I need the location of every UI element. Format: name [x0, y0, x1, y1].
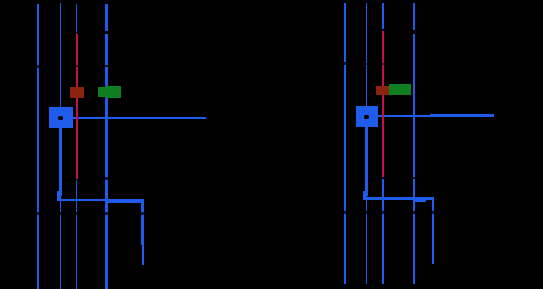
junction break R1' right	[382, 63, 385, 65]
signal line R1 left (red)	[76, 34, 78, 179]
junction break V3 right top	[382, 29, 385, 30]
wire H mid right from node U2 part 1	[378, 115, 449, 118]
wire H bottom left second	[108, 201, 144, 203]
junction break V3 right bottom	[382, 177, 385, 179]
capacitor C1' right (green box)	[389, 84, 411, 95]
wire V1 left (net A)	[37, 4, 40, 289]
capacitor C1 left (green box part 1)	[98, 87, 113, 97]
junction break V3 left top	[75, 32, 78, 34]
wire V2 right jog segment	[363, 191, 366, 198]
junction break V4 left lower	[105, 177, 108, 180]
junction break V4 right top	[413, 30, 416, 34]
wire V4 left (net D)	[105, 4, 108, 289]
wire H bottom left	[57, 199, 144, 202]
wire V3 left (net C, blue under red)	[76, 4, 78, 289]
wire V3 right (net C', blue under red)	[382, 3, 384, 285]
wire H mid right part 2	[430, 114, 494, 117]
node U2 right (blue square)	[356, 106, 378, 127]
junction break V4 left top	[105, 31, 108, 35]
wire V2 left jog segment	[57, 191, 60, 201]
wire V2 left (net B)	[60, 3, 62, 289]
junction break V2 right	[365, 63, 367, 66]
capacitor C1 left (green box part 2)	[106, 86, 121, 98]
junction break row left y213	[35, 212, 145, 215]
wire H bottom right	[363, 197, 434, 200]
junction break V1 right	[344, 62, 347, 65]
node U1 left (blue square)	[49, 107, 73, 128]
wire corner vertical right	[432, 197, 434, 264]
wire V2 right (net B')	[366, 3, 368, 285]
junction break V4 left mid	[105, 65, 108, 68]
wire V2 left thick segment below node	[59, 128, 62, 196]
wire corner vertical left upper	[141, 199, 145, 245]
resistor R2' right (dark red box)	[376, 86, 390, 96]
signal line R1' right (red)	[382, 31, 384, 178]
wire H bottom right second	[415, 200, 426, 202]
wire V2 right thick segment below node	[365, 127, 368, 196]
junction break V3 left bottom	[75, 179, 78, 180]
junction break R1 left	[76, 65, 79, 67]
wire H mid left from node U1	[73, 117, 207, 119]
wire V1 right (net A')	[344, 3, 347, 285]
node U1 left pin dot	[58, 116, 63, 121]
node U2 right pin dot	[364, 115, 369, 120]
resistor R2 left (dark red box)	[70, 87, 84, 98]
junction break row right y213	[342, 211, 435, 214]
junction break V1 left	[37, 65, 40, 68]
wire V4 right (net D')	[413, 3, 415, 285]
junction break V4 right lower	[413, 177, 416, 179]
wire corner vertical left lower	[142, 245, 144, 265]
